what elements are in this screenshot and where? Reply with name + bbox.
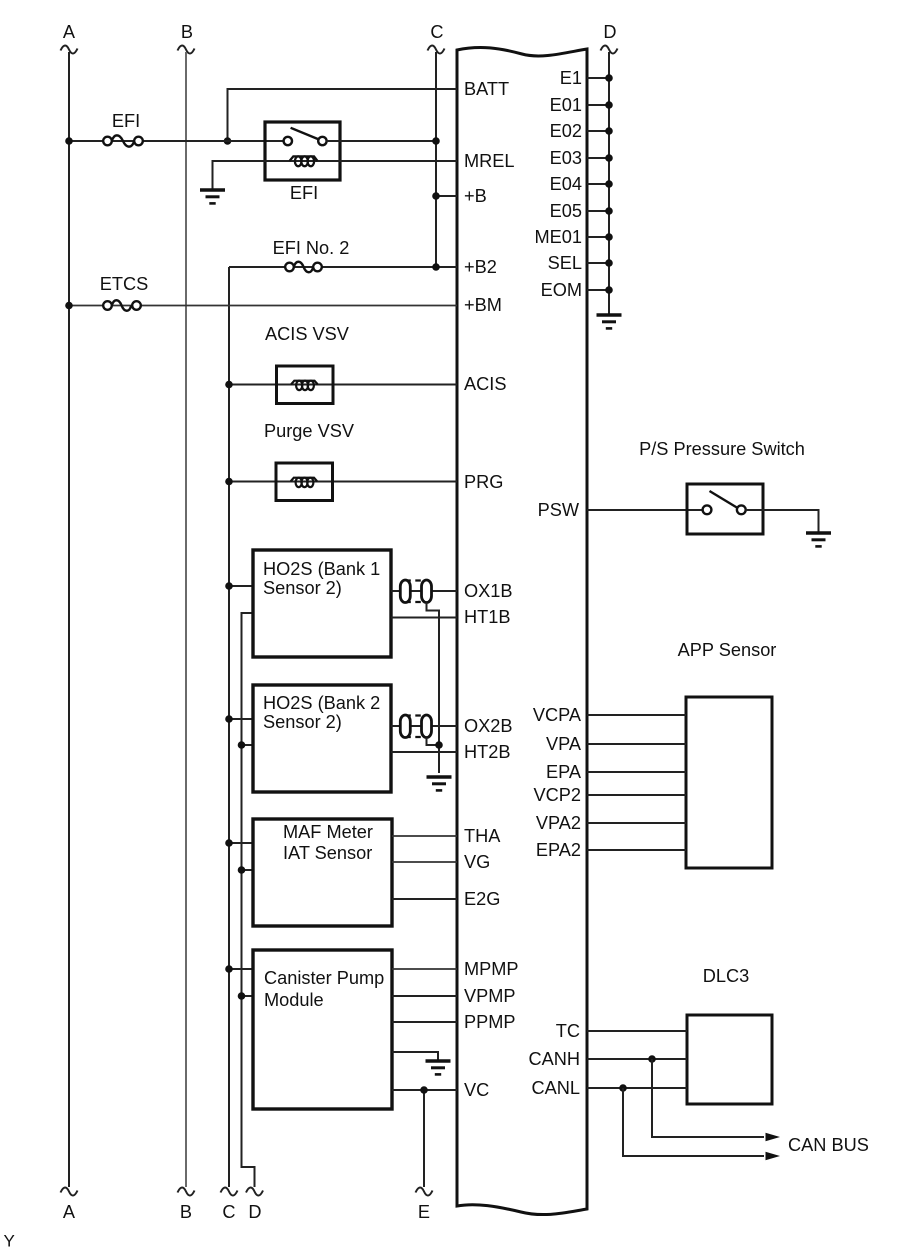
svg-text:IAT Sensor: IAT Sensor	[283, 843, 372, 863]
wire +B2 row	[229, 266, 457, 268]
svg-text:EPA: EPA	[546, 762, 582, 782]
svg-text:Sensor 2): Sensor 2)	[263, 578, 342, 598]
svg-text:OX2B: OX2B	[464, 716, 513, 736]
wire CANH to CAN BUS	[652, 1059, 764, 1137]
svg-text:OX1B: OX1B	[464, 581, 513, 601]
wire HT2B row	[391, 751, 457, 753]
wire HO2S1 heater supply	[229, 585, 253, 587]
node E bottom break	[416, 1187, 433, 1195]
svg-text:EFI: EFI	[290, 183, 318, 203]
ground (D bus)	[597, 315, 622, 328]
wire MAF sensor ground	[242, 869, 254, 871]
svg-text:A: A	[63, 1202, 76, 1222]
svg-text:DLC3: DLC3	[703, 966, 750, 986]
junction on supply bus (PRG)	[225, 478, 233, 486]
wire OX1B shield drain	[427, 603, 440, 774]
ground (shield drains)	[427, 777, 452, 790]
svg-text:Y: Y	[4, 1232, 15, 1250]
solenoid ACIS coil	[291, 381, 318, 390]
svg-text:PSW: PSW	[538, 500, 580, 520]
svg-text:C: C	[430, 22, 443, 42]
wire E03	[587, 157, 609, 159]
fuse ETCS	[103, 300, 141, 311]
svg-text:Purge VSV: Purge VSV	[264, 421, 355, 441]
svg-text:D: D	[248, 1202, 261, 1222]
junction on bus C (+B)	[432, 192, 440, 200]
svg-text:B: B	[180, 1202, 192, 1222]
wire VCPA row	[587, 714, 686, 716]
ground (canister)	[426, 1061, 451, 1074]
svg-text:ACIS: ACIS	[464, 374, 506, 394]
switch P/S box	[687, 484, 763, 534]
junction on bus C (+B2)	[432, 263, 440, 271]
svg-text:Module: Module	[264, 990, 324, 1010]
svg-text:+B2: +B2	[464, 257, 497, 277]
svg-text:E1: E1	[560, 68, 582, 88]
node D top break	[601, 45, 618, 53]
arrow CANL	[766, 1152, 781, 1160]
svg-text:E02: E02	[550, 121, 582, 141]
junction on sensor-ground bus (HO2S2)	[238, 741, 246, 749]
junction shield drains	[435, 741, 443, 749]
wire E02	[587, 130, 609, 132]
wire E2G row	[392, 898, 457, 900]
wire HO2S2 sensor ground	[242, 744, 254, 746]
junction on bus C (relay output)	[432, 137, 440, 145]
wire PRG row	[229, 481, 457, 483]
wire ME01	[587, 236, 609, 238]
junction on bus A (EFI row)	[65, 137, 73, 145]
wire +B row	[436, 195, 457, 197]
arrow CANH	[766, 1133, 781, 1141]
node A top break	[61, 45, 78, 53]
wire E1	[587, 77, 609, 79]
svg-text:Sensor 2): Sensor 2)	[263, 712, 342, 732]
sensor MAF meter box	[253, 819, 392, 926]
wire VPA2 row	[587, 822, 686, 824]
bus C-top wire (feeds +B/+B2 from relay)	[435, 52, 437, 267]
node C top break	[428, 45, 445, 53]
svg-text:VCPA: VCPA	[533, 705, 582, 725]
wire CANL row	[587, 1087, 687, 1089]
junction on sensor-ground bus (canister)	[238, 992, 246, 1000]
svg-text:MREL: MREL	[464, 151, 515, 171]
svg-text:E01: E01	[550, 95, 582, 115]
ECU box (wavy top and bottom)	[457, 47, 587, 1214]
wire E04	[587, 183, 609, 185]
node B bottom break	[178, 1187, 195, 1195]
shielded cable OX2B	[400, 715, 431, 738]
wire OX2B row	[391, 725, 457, 727]
solenoid Purge VSV box	[276, 463, 333, 501]
wire canister supply	[229, 968, 253, 970]
wire HT1B row	[391, 617, 457, 619]
svg-text:VPA: VPA	[546, 734, 582, 754]
bus C-bottom supply wire (from EFI No.2 fuse)	[228, 267, 230, 1187]
svg-text:VPA2: VPA2	[536, 813, 581, 833]
relay coil	[290, 156, 318, 166]
wire MPMP row	[392, 968, 457, 970]
wire PSW to ground	[746, 510, 819, 532]
svg-text:MAF Meter: MAF Meter	[283, 822, 373, 842]
wire THA row	[392, 835, 457, 837]
solenoid Purge coil	[291, 478, 318, 487]
svg-text:E04: E04	[550, 174, 582, 194]
svg-text:A: A	[63, 22, 76, 42]
svg-text:E2G: E2G	[464, 889, 500, 909]
junction on sensor-ground bus (MAF)	[238, 866, 246, 874]
wire VG row	[392, 861, 457, 863]
wire EPA2 row	[587, 849, 686, 851]
wire canister ground pin	[392, 1052, 438, 1060]
wire MAF supply	[229, 842, 253, 844]
svg-text:SEL: SEL	[548, 253, 582, 273]
svg-text:C: C	[222, 1202, 235, 1222]
svg-text:+BM: +BM	[464, 295, 502, 315]
svg-text:APP Sensor: APP Sensor	[678, 640, 777, 660]
svg-text:EPA2: EPA2	[536, 840, 581, 860]
svg-text:+B: +B	[464, 186, 487, 206]
node B top break	[178, 45, 195, 53]
sensor HO2S bank2 box	[253, 685, 391, 792]
wire PSW row	[587, 509, 703, 511]
wire VC row	[392, 1089, 457, 1091]
wire VPA row	[587, 743, 686, 745]
node D bottom break	[246, 1187, 263, 1195]
relay switch contacts	[284, 128, 327, 145]
node A bottom break	[61, 1187, 78, 1195]
junction dots on D bus	[605, 74, 613, 294]
junction on bus A (+BM)	[65, 302, 73, 310]
junction CANH branch	[648, 1055, 656, 1063]
svg-text:ACIS VSV: ACIS VSV	[265, 324, 350, 344]
svg-text:VG: VG	[464, 852, 490, 872]
svg-text:CANL: CANL	[531, 1078, 580, 1098]
junction VC to bus E	[420, 1086, 428, 1094]
wire HO2S2 heater supply	[229, 718, 253, 720]
svg-text:HO2S (Bank 2: HO2S (Bank 2	[263, 693, 380, 713]
solenoid ACIS VSV box	[277, 366, 334, 404]
node C bottom break	[221, 1187, 238, 1195]
svg-text:THA: THA	[464, 826, 501, 846]
wire PPMP row	[392, 1021, 457, 1023]
E-pin wires group	[587, 78, 609, 290]
sensor HO2S bank1 box	[253, 550, 391, 657]
fuse EFI No.2	[285, 262, 322, 273]
wire MREL row (ground side through coil to ECU)	[213, 161, 458, 190]
wire SEL	[587, 262, 609, 264]
svg-text:ME01: ME01	[534, 227, 582, 247]
wire E01	[587, 104, 609, 106]
wire +BM row	[69, 305, 457, 307]
svg-text:VCP2: VCP2	[533, 785, 581, 805]
svg-text:E: E	[418, 1202, 430, 1222]
svg-text:VC: VC	[464, 1080, 489, 1100]
svg-text:TC: TC	[556, 1021, 580, 1041]
svg-text:P/S Pressure Switch: P/S Pressure Switch	[639, 439, 805, 459]
wire OX1B row	[391, 590, 457, 592]
wire EOM	[587, 289, 609, 291]
sensor APP box	[686, 697, 772, 868]
svg-text:EFI No. 2: EFI No. 2	[273, 238, 350, 258]
connector DLC3 box	[687, 1015, 772, 1104]
bus D-bottom sensor ground wire	[242, 613, 255, 1187]
wire EFI fuse row (A to relay)	[69, 140, 284, 142]
svg-text:ETCS: ETCS	[100, 274, 149, 294]
bus D-top ground wire	[608, 52, 610, 314]
shielded cable OX1B	[400, 580, 431, 603]
fuse EFI	[103, 135, 143, 146]
wire OX2B shield drain	[427, 738, 440, 746]
junction on supply bus (ACIS)	[225, 381, 233, 389]
wire E05	[587, 210, 609, 212]
svg-text:EOM: EOM	[541, 280, 582, 300]
junction on supply bus (HO2S1)	[225, 582, 233, 590]
module canister pump box	[253, 950, 392, 1109]
svg-text:PRG: PRG	[464, 472, 503, 492]
ground (relay coil)	[200, 190, 225, 203]
svg-text:B: B	[181, 22, 193, 42]
svg-text:HT2B: HT2B	[464, 742, 511, 762]
svg-text:HT1B: HT1B	[464, 607, 511, 627]
svg-text:VPMP: VPMP	[464, 986, 516, 1006]
relay EFI box	[265, 122, 340, 180]
junction CANL branch	[619, 1084, 627, 1092]
wire CANH row	[587, 1058, 687, 1060]
wire TC row	[587, 1030, 687, 1032]
junction on supply bus (canister)	[225, 965, 233, 973]
svg-text:CAN BUS: CAN BUS	[788, 1135, 869, 1155]
junction on supply bus (HO2S2)	[225, 715, 233, 723]
wire EPA row	[587, 771, 686, 773]
svg-text:HO2S (Bank 1: HO2S (Bank 1	[263, 559, 380, 579]
wire BATT row	[228, 89, 458, 141]
bus E wire (sensor ground from VC row)	[423, 1090, 425, 1187]
switch P/S contacts	[703, 491, 746, 514]
wire canister sensor ground	[242, 995, 254, 997]
svg-text:MPMP: MPMP	[464, 959, 519, 979]
wire VPMP row	[392, 995, 457, 997]
svg-text:PPMP: PPMP	[464, 1012, 516, 1032]
svg-text:EFI: EFI	[112, 111, 140, 131]
svg-text:E03: E03	[550, 148, 582, 168]
wire relay switch to bus C	[326, 140, 436, 142]
ground (P/S switch)	[806, 533, 831, 546]
svg-text:Canister Pump: Canister Pump	[264, 968, 384, 988]
junction on supply bus (MAF)	[225, 839, 233, 847]
wire VCP2 row	[587, 794, 686, 796]
svg-text:BATT: BATT	[464, 79, 509, 99]
svg-text:E05: E05	[550, 201, 582, 221]
bus A wire	[68, 52, 70, 1187]
bus B wire	[185, 52, 187, 1187]
svg-text:D: D	[603, 22, 616, 42]
svg-text:CANH: CANH	[528, 1049, 580, 1069]
wire CANL to CAN BUS	[623, 1088, 764, 1156]
wire ACIS row	[229, 384, 457, 386]
junction BATT riser on EFI row	[224, 137, 232, 145]
